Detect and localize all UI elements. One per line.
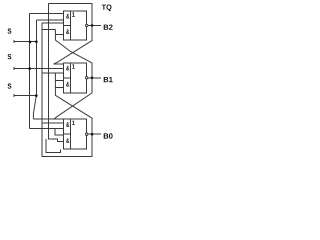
node junction B1 output	[91, 77, 94, 80]
OR gate label U3 "1"	[72, 12, 75, 16]
node junction S2/V1	[28, 67, 31, 70]
wire S3 input	[14, 94, 38, 97]
wire U2 reset input row B	[55, 87, 63, 89]
wire B0 output to label	[88, 133, 101, 135]
wire U2 reset from U1 output cross up	[55, 73, 92, 134]
inversion bubble U3 output	[86, 24, 88, 26]
OR gate label U2 "1"	[72, 64, 75, 68]
wire V1 top to U3 input	[30, 12, 64, 14]
wire U3 reset input row	[55, 33, 63, 35]
AND gate label U2a	[66, 66, 69, 71]
wire U1 jog to lower input	[55, 129, 64, 135]
wire V3 tap to U2 input	[42, 72, 64, 74]
AND gate label U2b	[66, 82, 69, 87]
wire V2 slant down to U1 input row	[33, 96, 36, 120]
label S3	[8, 83, 12, 88]
wire V2 bus S1/S3 net	[35, 20, 37, 96]
wire S1 input	[14, 40, 37, 43]
wire V3 tap to U1 input	[42, 122, 64, 124]
inversion bubble U2 output	[86, 77, 88, 79]
label S2	[8, 54, 12, 59]
wire B2 output to label	[88, 24, 101, 26]
wire U1 bottom stub	[46, 139, 61, 152]
wire U1 input row from V2 slant	[33, 118, 63, 120]
AND gate label U3a	[66, 14, 69, 19]
node junction B0 output	[91, 133, 94, 136]
label TQ	[102, 5, 112, 12]
node junction S1/V2	[35, 40, 38, 43]
wire S2 input	[14, 67, 64, 70]
node junction S3/V2	[35, 94, 38, 97]
wire U3 reset from U2 output cross up	[55, 29, 92, 77]
label S1	[8, 28, 12, 33]
wire U2 input row	[53, 63, 63, 65]
AND gate label U3b	[66, 29, 69, 34]
wire feedback vertical V4 from top wire down	[49, 4, 64, 142]
wire V3 tap to U3 reset input	[42, 28, 55, 30]
wire V3 ring feedback bus	[42, 23, 92, 157]
latch cell U2 (bit B1) outline	[64, 63, 87, 93]
wire V2 top to U3 input	[36, 19, 63, 21]
label B2	[104, 24, 113, 29]
AND gate label U1b	[66, 138, 69, 143]
label B1	[104, 77, 113, 82]
label B0	[104, 133, 113, 138]
latch cell U3 (bit B2) outline	[64, 11, 87, 40]
latch cell U1 (bit B0) outline	[64, 119, 87, 149]
wire V3 top to U3 set input	[42, 22, 64, 24]
wire V1 bus S2 net	[29, 13, 31, 128]
wire B1 output to label	[88, 77, 101, 79]
OR gate label U1 "1"	[72, 121, 75, 125]
wire V1 bottom to U1 input	[30, 128, 64, 130]
inversion bubble U1 output	[86, 133, 88, 135]
node junction B2 output	[91, 24, 94, 27]
wire B2 output up to top feedback	[49, 4, 92, 26]
wire U2 reset input row A	[55, 80, 63, 82]
wire U2 to U1 cross down (B1 Q to U1 input)	[54, 78, 92, 119]
node junction S1/V1	[29, 41, 32, 44]
AND gate label U1a	[66, 122, 69, 127]
wire U3 to U2 cross down (B2 Q to U2 input)	[53, 25, 92, 64]
